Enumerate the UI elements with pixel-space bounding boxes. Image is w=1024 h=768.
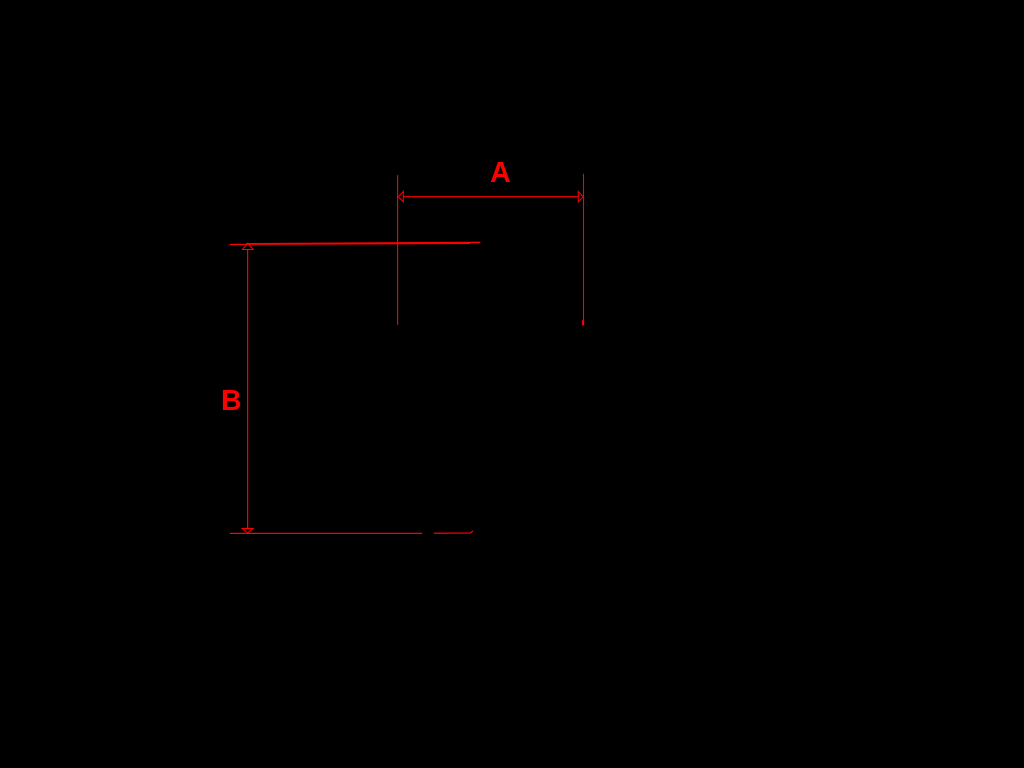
- dimension line A: [403, 196, 578, 198]
- dimension line B: [247, 250, 249, 529]
- svg-text:A: A: [490, 157, 511, 189]
- extension line B top: [230, 243, 471, 246]
- object bottom edge segment: [434, 531, 473, 533]
- object top edge line: [246, 242, 480, 243]
- arrowhead B bottom: [242, 529, 253, 533]
- arrowhead A left: [398, 191, 403, 202]
- arrowhead A right: [578, 191, 583, 202]
- extension line A left: [397, 175, 399, 325]
- arrowhead B top: [242, 243, 253, 249]
- svg-text:B: B: [221, 385, 242, 417]
- extension line B bottom: [230, 532, 423, 534]
- extension line A right: [583, 174, 585, 326]
- extension line A right end tick: [582, 320, 584, 325]
